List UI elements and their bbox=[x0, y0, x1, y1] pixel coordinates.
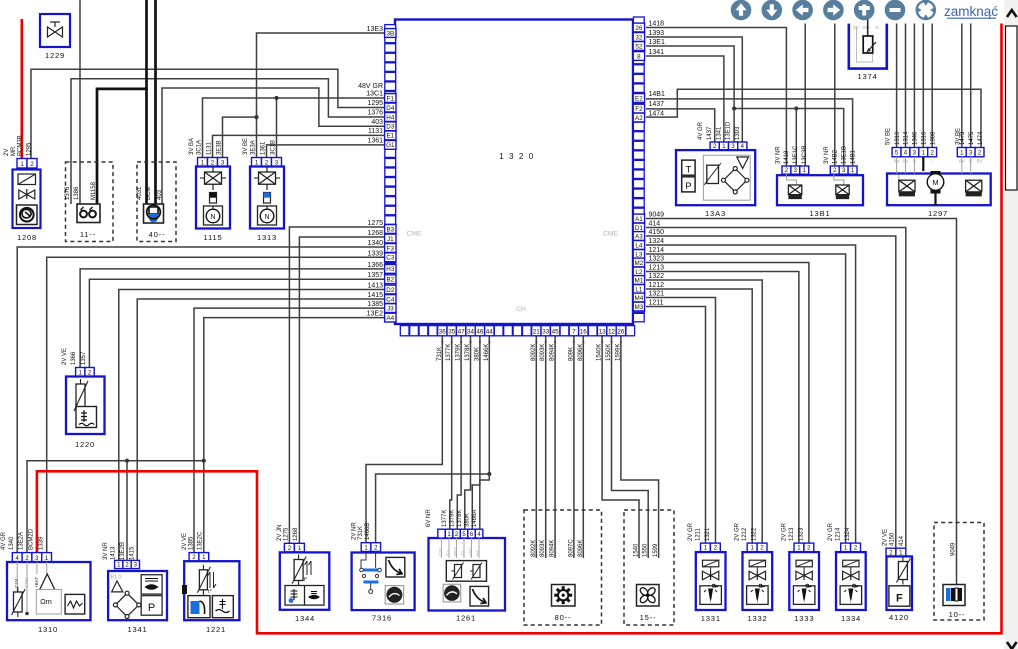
svg-text:1357: 1357 bbox=[367, 272, 383, 279]
svg-text:1341: 1341 bbox=[716, 126, 722, 140]
svg-text:+BAT: +BAT bbox=[34, 577, 39, 588]
svg-text:3V BA: 3V BA bbox=[189, 138, 195, 155]
svg-text:1378K: 1378K bbox=[457, 510, 463, 527]
svg-text:13B1: 13B1 bbox=[810, 209, 831, 218]
svg-text:7316: 7316 bbox=[372, 614, 392, 623]
svg-text:M1: M1 bbox=[476, 549, 481, 556]
svg-text:0V: 0V bbox=[977, 159, 984, 165]
svg-text:380K: 380K bbox=[474, 347, 480, 361]
svg-text:1466K: 1466K bbox=[484, 344, 490, 361]
svg-text:2V VE: 2V VE bbox=[62, 348, 68, 365]
svg-text:3C1A: 3C1A bbox=[197, 140, 203, 155]
svg-text:1131: 1131 bbox=[207, 141, 213, 155]
svg-text:8094K: 8094K bbox=[550, 344, 556, 361]
svg-text:1393: 1393 bbox=[735, 126, 741, 140]
svg-text:C4: C4 bbox=[386, 296, 395, 303]
svg-text:1540: 1540 bbox=[634, 543, 640, 557]
svg-text:16: 16 bbox=[580, 329, 588, 336]
svg-text:2V GR: 2V GR bbox=[735, 522, 741, 541]
svg-text:44: 44 bbox=[486, 329, 494, 336]
svg-text:1295: 1295 bbox=[367, 100, 383, 107]
svg-text:1466B: 1466B bbox=[365, 523, 371, 540]
svg-text:403: 403 bbox=[157, 189, 163, 200]
svg-text:1339: 1339 bbox=[39, 536, 45, 550]
svg-text:1322: 1322 bbox=[649, 273, 665, 280]
svg-text:M4: M4 bbox=[635, 295, 644, 302]
svg-text:36: 36 bbox=[439, 329, 447, 336]
svg-text:C3: C3 bbox=[386, 255, 395, 262]
svg-text:3E3B: 3E3B bbox=[217, 140, 223, 155]
svg-text:S1: S1 bbox=[446, 550, 451, 556]
svg-text:35: 35 bbox=[448, 329, 456, 336]
svg-text:14B1: 14B1 bbox=[649, 91, 665, 98]
svg-text:8096K: 8096K bbox=[578, 344, 584, 361]
svg-text:1376: 1376 bbox=[367, 110, 383, 117]
svg-text:F: F bbox=[896, 593, 903, 605]
svg-text:1374: 1374 bbox=[857, 72, 877, 81]
svg-text:2V GR: 2V GR bbox=[781, 522, 787, 541]
svg-text:1377K: 1377K bbox=[442, 510, 448, 527]
svg-text:2V JN: 2V JN bbox=[277, 525, 283, 541]
svg-text:33: 33 bbox=[542, 329, 550, 336]
svg-text:1550K: 1550K bbox=[606, 344, 612, 361]
svg-text:13E2B: 13E2B bbox=[120, 542, 126, 560]
svg-text:1 3 2 0: 1 3 2 0 bbox=[499, 152, 535, 161]
svg-text:A1: A1 bbox=[635, 216, 643, 223]
svg-text:1324: 1324 bbox=[649, 238, 665, 245]
svg-text:C1N: C1N bbox=[14, 579, 19, 588]
svg-text:E1: E1 bbox=[386, 133, 394, 140]
svg-text:13E2: 13E2 bbox=[367, 311, 383, 318]
svg-text:13E1B: 13E1B bbox=[841, 146, 847, 164]
svg-text:M: M bbox=[932, 178, 938, 187]
svg-text:1377K: 1377K bbox=[446, 344, 452, 361]
svg-text:L2: L2 bbox=[635, 269, 643, 276]
svg-text:13E3: 13E3 bbox=[367, 26, 383, 33]
svg-text:15--: 15-- bbox=[640, 613, 657, 622]
svg-text:D2: D2 bbox=[386, 287, 395, 294]
svg-text:1378K: 1378K bbox=[465, 344, 471, 361]
svg-text:1324: 1324 bbox=[845, 527, 851, 541]
svg-text:D4: D4 bbox=[386, 105, 395, 112]
svg-text:1275: 1275 bbox=[367, 220, 383, 227]
svg-text:380K: 380K bbox=[465, 513, 471, 527]
svg-text:3E3A: 3E3A bbox=[251, 140, 257, 155]
svg-text:4V GR: 4V GR bbox=[1, 531, 7, 550]
svg-text:8097C: 8097C bbox=[568, 539, 574, 557]
svg-text:1366: 1366 bbox=[367, 262, 383, 269]
svg-text:1474: 1474 bbox=[649, 110, 665, 117]
svg-text:13C3B: 13C3B bbox=[802, 146, 808, 164]
svg-text:1366: 1366 bbox=[71, 351, 77, 365]
svg-text:1361: 1361 bbox=[367, 138, 383, 145]
svg-text:8093K: 8093K bbox=[540, 344, 546, 361]
svg-text:1115: 1115 bbox=[204, 233, 223, 242]
svg-text:A2: A2 bbox=[635, 115, 643, 122]
svg-text:t°: t° bbox=[304, 577, 308, 583]
svg-text:1220: 1220 bbox=[75, 440, 95, 449]
svg-text:13E1C: 13E1C bbox=[793, 145, 799, 164]
svg-text:4V GR: 4V GR bbox=[698, 121, 704, 140]
svg-text:1386: 1386 bbox=[74, 186, 80, 200]
svg-text:8096K: 8096K bbox=[578, 540, 584, 557]
svg-text:414: 414 bbox=[649, 221, 661, 228]
svg-text:1214: 1214 bbox=[649, 247, 665, 254]
svg-text:1474: 1474 bbox=[978, 131, 984, 145]
svg-text:47: 47 bbox=[458, 329, 466, 336]
svg-text:1323: 1323 bbox=[649, 256, 665, 263]
svg-text:4150: 4150 bbox=[649, 229, 665, 236]
svg-text:D3: D3 bbox=[386, 124, 395, 131]
svg-text:3V BE: 3V BE bbox=[243, 138, 249, 155]
svg-text:26: 26 bbox=[617, 329, 625, 336]
svg-text:CME: CME bbox=[406, 231, 422, 238]
svg-text:7: 7 bbox=[572, 329, 576, 336]
svg-text:×: × bbox=[478, 340, 481, 346]
svg-text:T: T bbox=[685, 164, 691, 175]
svg-text:1297: 1297 bbox=[928, 209, 948, 218]
svg-text:2V NR: 2V NR bbox=[352, 522, 358, 540]
svg-text:13E2A: 13E2A bbox=[19, 532, 25, 550]
svg-text:1344: 1344 bbox=[295, 614, 315, 623]
svg-text:1473: 1473 bbox=[960, 131, 966, 145]
svg-text:1313: 1313 bbox=[257, 233, 277, 242]
svg-text:1475: 1475 bbox=[969, 131, 975, 145]
svg-text:1316: 1316 bbox=[922, 131, 928, 145]
svg-text:1379K: 1379K bbox=[450, 510, 456, 527]
svg-text:N: N bbox=[264, 214, 269, 221]
svg-text:3C1B: 3C1B bbox=[271, 140, 277, 155]
svg-text:A4: A4 bbox=[386, 315, 394, 322]
svg-text:1361: 1361 bbox=[261, 141, 267, 155]
svg-text:L4: L4 bbox=[635, 242, 643, 249]
svg-text:1550: 1550 bbox=[643, 543, 649, 557]
svg-text:1413: 1413 bbox=[111, 546, 117, 560]
svg-text:3V NR: 3V NR bbox=[776, 146, 782, 164]
svg-text:40--: 40-- bbox=[149, 230, 166, 239]
svg-text:S: S bbox=[875, 25, 878, 31]
svg-text:10--: 10-- bbox=[949, 610, 966, 619]
svg-text:1295: 1295 bbox=[27, 142, 33, 156]
svg-text:13E1D: 13E1D bbox=[726, 121, 732, 140]
svg-text:×: × bbox=[441, 340, 444, 346]
svg-text:4150: 4150 bbox=[889, 532, 895, 546]
svg-text:9049: 9049 bbox=[649, 212, 665, 219]
svg-text:1275: 1275 bbox=[283, 527, 289, 541]
svg-text:1418: 1418 bbox=[649, 21, 665, 28]
svg-text:1221: 1221 bbox=[206, 625, 226, 634]
svg-text:1212: 1212 bbox=[742, 527, 748, 541]
svg-text:F1: F1 bbox=[387, 95, 395, 102]
svg-text:D1: D1 bbox=[635, 225, 644, 232]
svg-text:J3: J3 bbox=[387, 305, 394, 312]
svg-text:32: 32 bbox=[635, 34, 643, 41]
svg-text:×: × bbox=[572, 340, 575, 346]
svg-text:2V GR: 2V GR bbox=[828, 522, 834, 541]
svg-text:1418: 1418 bbox=[784, 150, 790, 164]
svg-text:2V: 2V bbox=[4, 149, 10, 156]
svg-text:1385: 1385 bbox=[367, 301, 383, 308]
svg-text:MR: MR bbox=[11, 146, 17, 156]
svg-text:1346: 1346 bbox=[913, 131, 919, 145]
svg-text:1211: 1211 bbox=[695, 527, 701, 541]
svg-text:1540K: 1540K bbox=[597, 344, 603, 361]
svg-text:E2: E2 bbox=[635, 95, 643, 102]
svg-text:CME: CME bbox=[603, 231, 619, 238]
svg-text:BCM2D: BCM2D bbox=[29, 528, 35, 550]
svg-text:1214: 1214 bbox=[836, 527, 842, 541]
svg-text:+5V: +5V bbox=[468, 548, 473, 556]
svg-text:13C1: 13C1 bbox=[366, 91, 383, 98]
svg-text:52: 52 bbox=[635, 43, 643, 50]
svg-text:1308: 1308 bbox=[930, 131, 936, 145]
svg-text:80--: 80-- bbox=[555, 613, 572, 622]
svg-text:1261: 1261 bbox=[456, 614, 476, 623]
svg-text:BCM3B: BCM3B bbox=[18, 135, 24, 156]
svg-text:1437: 1437 bbox=[707, 126, 713, 140]
svg-text:ON: ON bbox=[862, 25, 870, 31]
svg-text:1340: 1340 bbox=[9, 536, 15, 550]
svg-text:1212: 1212 bbox=[649, 282, 665, 289]
svg-text:1466A: 1466A bbox=[472, 510, 478, 527]
svg-text:809K: 809K bbox=[568, 347, 574, 361]
svg-text:1599: 1599 bbox=[653, 543, 659, 557]
svg-text:1415: 1415 bbox=[130, 546, 136, 560]
svg-text:F2: F2 bbox=[635, 106, 643, 113]
svg-text:8: 8 bbox=[637, 53, 641, 60]
svg-text:731K: 731K bbox=[437, 347, 443, 361]
svg-text:1310: 1310 bbox=[895, 131, 901, 145]
svg-text:1213: 1213 bbox=[649, 265, 665, 272]
svg-text:A3: A3 bbox=[635, 233, 643, 240]
svg-text:1379K: 1379K bbox=[456, 344, 462, 361]
svg-text:1310: 1310 bbox=[38, 625, 58, 634]
svg-text:L3: L3 bbox=[635, 251, 643, 258]
svg-text:M1158: M1158 bbox=[91, 181, 97, 200]
svg-text:26: 26 bbox=[635, 25, 643, 32]
svg-text:21: 21 bbox=[533, 329, 541, 336]
svg-text:H4: H4 bbox=[386, 114, 395, 121]
svg-text:B2: B2 bbox=[386, 277, 394, 284]
svg-text:5V BE: 5V BE bbox=[886, 128, 892, 145]
svg-text:BCM: BCM bbox=[146, 187, 152, 200]
svg-text:CH: CH bbox=[516, 306, 526, 313]
svg-text:1321: 1321 bbox=[649, 291, 665, 298]
svg-text:1341: 1341 bbox=[649, 49, 665, 56]
svg-text:8093K: 8093K bbox=[540, 540, 546, 557]
svg-text:414: 414 bbox=[899, 535, 905, 546]
svg-text:1393: 1393 bbox=[649, 30, 665, 37]
svg-text:8092K: 8092K bbox=[531, 540, 537, 557]
svg-text:1314: 1314 bbox=[904, 131, 910, 145]
svg-text:M1: M1 bbox=[635, 277, 644, 284]
svg-text:13: 13 bbox=[599, 329, 607, 336]
svg-text:GND: GND bbox=[24, 577, 29, 588]
svg-text:1323: 1323 bbox=[798, 527, 804, 541]
svg-text:34: 34 bbox=[467, 329, 475, 336]
svg-text:13E2C: 13E2C bbox=[198, 531, 204, 550]
svg-text:45: 45 bbox=[552, 329, 560, 336]
svg-text:J1: J1 bbox=[387, 236, 394, 243]
svg-text:1208: 1208 bbox=[17, 233, 37, 242]
svg-text:14B2: 14B2 bbox=[832, 149, 838, 164]
svg-text:P: P bbox=[148, 602, 155, 614]
svg-text:3B: 3B bbox=[386, 30, 394, 37]
svg-text:N: N bbox=[210, 214, 215, 221]
svg-text:t°: t° bbox=[208, 589, 212, 595]
svg-text:1213: 1213 bbox=[789, 527, 795, 541]
svg-text:MV1: MV1 bbox=[453, 546, 458, 556]
svg-text:1376: 1376 bbox=[65, 186, 71, 200]
svg-text:2V GR: 2V GR bbox=[688, 522, 694, 541]
svg-text:B1.0: B1.0 bbox=[111, 575, 122, 581]
svg-text:48V GR: 48V GR bbox=[358, 83, 383, 90]
svg-text:M3: M3 bbox=[635, 304, 644, 311]
svg-text:13E1: 13E1 bbox=[649, 39, 665, 46]
svg-text:L1: L1 bbox=[635, 286, 643, 293]
svg-text:1339: 1339 bbox=[367, 250, 383, 257]
svg-text:1331: 1331 bbox=[701, 614, 721, 623]
svg-text:46: 46 bbox=[476, 329, 484, 336]
svg-text:1333: 1333 bbox=[794, 614, 814, 623]
svg-text:LVV: LVV bbox=[438, 548, 443, 556]
svg-text:11--: 11-- bbox=[80, 230, 96, 239]
svg-text:8094K: 8094K bbox=[550, 540, 556, 557]
svg-text:1321: 1321 bbox=[705, 527, 711, 541]
svg-text:1385: 1385 bbox=[188, 536, 194, 550]
svg-text:1340: 1340 bbox=[367, 240, 383, 247]
svg-text:1413: 1413 bbox=[367, 283, 383, 290]
svg-text:1211: 1211 bbox=[649, 300, 664, 307]
svg-text:731K: 731K bbox=[358, 526, 364, 540]
svg-text:6V NR: 6V NR bbox=[426, 509, 432, 527]
svg-text:1599K: 1599K bbox=[615, 344, 621, 361]
svg-text:1322: 1322 bbox=[752, 527, 758, 541]
svg-text:12: 12 bbox=[608, 329, 616, 336]
svg-text:2V VE: 2V VE bbox=[883, 529, 889, 546]
svg-text:zamknąć: zamknąć bbox=[944, 4, 998, 19]
svg-text:1437: 1437 bbox=[649, 101, 665, 108]
svg-text:13A3: 13A3 bbox=[705, 209, 726, 218]
svg-text:4120: 4120 bbox=[889, 613, 909, 622]
svg-text:B3: B3 bbox=[386, 226, 394, 233]
svg-text:9049: 9049 bbox=[951, 542, 957, 556]
svg-text:Ωm: Ωm bbox=[40, 597, 52, 606]
svg-text:F3: F3 bbox=[387, 245, 395, 252]
svg-text:1357: 1357 bbox=[81, 351, 87, 365]
svg-text:S2: S2 bbox=[461, 550, 466, 556]
svg-text:M2: M2 bbox=[635, 260, 644, 267]
svg-text:14B1: 14B1 bbox=[850, 149, 856, 164]
svg-text:1332: 1332 bbox=[747, 614, 767, 623]
svg-text:P: P bbox=[685, 181, 691, 192]
svg-text:403: 403 bbox=[371, 119, 383, 126]
svg-text:1415: 1415 bbox=[367, 292, 383, 299]
svg-text:G1: G1 bbox=[386, 142, 395, 149]
svg-text:1268: 1268 bbox=[293, 527, 299, 541]
svg-text:2V VE: 2V VE bbox=[182, 533, 188, 550]
svg-text:3V NR: 3V NR bbox=[103, 542, 109, 560]
svg-text:8092K: 8092K bbox=[531, 344, 537, 361]
svg-text:3V NR: 3V NR bbox=[824, 146, 830, 164]
svg-text:1268: 1268 bbox=[367, 230, 383, 237]
svg-text:1229: 1229 bbox=[45, 51, 65, 60]
svg-text:H3: H3 bbox=[386, 266, 395, 273]
svg-text:4031: 4031 bbox=[137, 186, 143, 200]
svg-text:1341: 1341 bbox=[127, 625, 147, 634]
svg-text:1131: 1131 bbox=[368, 128, 383, 135]
svg-text:1334: 1334 bbox=[841, 614, 861, 623]
